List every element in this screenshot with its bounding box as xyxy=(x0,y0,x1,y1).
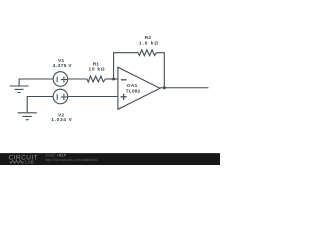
svg-text:4.375 V: 4.375 V xyxy=(53,63,73,69)
svg-text:1.6 kΩ: 1.6 kΩ xyxy=(139,41,159,47)
svg-text:1.034 V: 1.034 V xyxy=(51,117,72,123)
svg-text:http://circuitlab.com/cade564: http://circuitlab.com/cade564 xyxy=(45,158,97,162)
svg-text:OA1: OA1 xyxy=(127,83,138,89)
svg-text:10 kΩ: 10 kΩ xyxy=(89,66,106,72)
svg-text:LAB: LAB xyxy=(25,160,34,165)
svg-text:R2: R2 xyxy=(145,35,152,41)
svg-text:model : HELP: model : HELP xyxy=(45,154,67,158)
svg-text:TL082: TL082 xyxy=(126,89,141,95)
